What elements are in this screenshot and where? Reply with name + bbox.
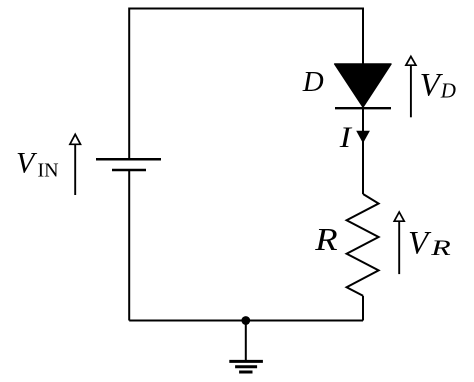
diode D cathode bar	[335, 107, 391, 109]
label VR	[408, 225, 451, 261]
resistor R zigzag	[347, 194, 379, 296]
battery VIN short plate	[112, 169, 146, 172]
svg-text:R: R	[314, 223, 338, 257]
label VD	[420, 67, 456, 103]
svg-text:I: I	[339, 120, 353, 153]
wire left upper (top to battery)	[128, 8, 130, 160]
arrow VIN (voltage reference)	[70, 134, 81, 195]
node junction dot	[241, 316, 250, 325]
diode D body	[335, 64, 391, 107]
svg-text:D: D	[440, 79, 456, 103]
ground	[229, 361, 263, 372]
svg-text:D: D	[302, 66, 324, 98]
label VIN	[16, 147, 59, 182]
wire bottom	[129, 320, 363, 322]
wire right lower (resistor to bottom)	[362, 296, 364, 321]
battery VIN long plate	[96, 158, 161, 161]
arrow VD (voltage reference)	[406, 56, 416, 117]
ground stub wire	[245, 321, 247, 361]
svg-text:IN: IN	[38, 159, 59, 181]
wire right upper (top to diode)	[362, 8, 364, 65]
wire top	[129, 8, 363, 10]
svg-text:R: R	[430, 236, 451, 260]
current arrowhead I	[356, 131, 370, 143]
arrow VR (voltage reference)	[394, 212, 404, 274]
wire left lower (battery to bottom)	[128, 170, 130, 321]
wire right middle (diode to resistor)	[362, 107, 364, 194]
